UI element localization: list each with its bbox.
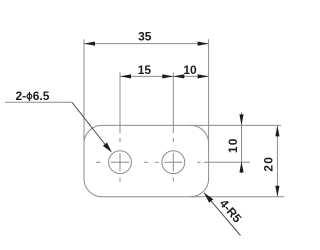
- dimension 20: top arrow: [275, 125, 279, 136]
- dimension 15: line: [120, 75, 173, 77]
- dimension 35: left arrow: [84, 42, 95, 46]
- dimension 10 top: line: [173, 75, 208, 77]
- svg-text:10: 10: [183, 63, 197, 77]
- leader 4-R5: arrow at corner radius: [204, 193, 213, 203]
- extension line right (x=208.6): [208, 39, 210, 145]
- leader 2-⌀6.5: diagonal line to hole 1: [72, 102, 108, 147]
- svg-text:35: 35: [138, 30, 152, 44]
- vertical centerline hole 1 (extension from 15 dim): [119, 73, 121, 182]
- svg-text:15: 15: [138, 63, 152, 77]
- bottom edge extension line: [190, 196, 284, 198]
- leader 2-⌀6.5: diameter symbol: [27, 94, 32, 99]
- dimension 10 right: top arrow (points down to top edge): [239, 114, 243, 125]
- dimension 10 right: bottom arrow (points up to centerline): [239, 162, 243, 173]
- vertical centerline hole 2 (extension from 15/10 dims): [172, 73, 174, 182]
- hole 1 (left, ⌀6.5): [109, 151, 132, 174]
- hole 2 (right, ⌀6.5): [162, 151, 185, 174]
- dimension 20: vertical line: [276, 125, 278, 196]
- top edge extension line: [190, 124, 281, 126]
- dimension 35: right arrow: [198, 42, 209, 46]
- dimension 35: line: [84, 43, 209, 45]
- dimension 20: bottom arrow: [275, 186, 279, 197]
- leader 2-⌀6.5: arrow at hole 1: [103, 143, 112, 153]
- svg-text:10: 10: [226, 137, 240, 153]
- dimension 10 top: right arrow: [198, 74, 209, 78]
- horizontal centerline extension to right (for 10 dim): [204, 161, 250, 163]
- dimension 15: right arrow: [162, 74, 173, 78]
- leader 2-⌀6.5: underline: [5, 101, 72, 103]
- dimension 10 right: vertical line: [241, 113, 243, 174]
- extension line left (x=84): [83, 39, 85, 145]
- horizontal centerline dashes: [96, 161, 201, 163]
- svg-text:20: 20: [261, 156, 275, 172]
- svg-text:2-: 2-: [16, 89, 27, 103]
- leader 4-R5: line: [204, 193, 241, 236]
- hole 2 center cross: [164, 153, 182, 171]
- dimension 10 top: left arrow: [173, 74, 184, 78]
- hole 1 center cross: [111, 153, 129, 171]
- dimension 15: left arrow: [120, 74, 131, 78]
- svg-text:6.5: 6.5: [33, 89, 50, 103]
- plate outline (rounded rectangle body): [84, 125, 209, 196]
